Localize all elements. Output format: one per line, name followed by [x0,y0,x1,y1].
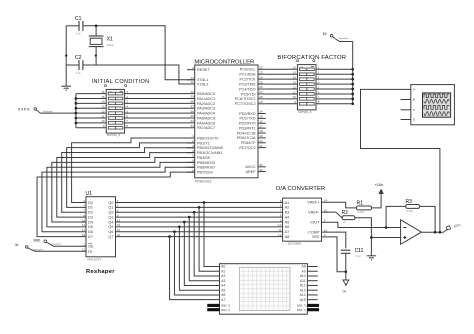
ground [61,85,71,87]
svg-text:PD5/OC1A: PD5/OC1A [237,136,256,140]
junction dot left of C2 [65,54,67,56]
svg-text:A4: A4 [285,215,290,219]
svg-text:15: 15 [292,71,296,75]
svg-text:PC6/TOSC1: PC6/TOSC1 [235,97,256,101]
svg-text:35: 35 [190,114,194,118]
svg-text:A6: A6 [221,293,225,297]
svg-text:28: 28 [259,95,263,99]
svg-text:12: 12 [190,80,194,84]
svg-text:16: 16 [117,228,121,232]
svg-text:INITIAL CONDITION: INITIAL CONDITION [92,79,150,85]
svg-text:A8: A8 [302,265,306,269]
svg-text:PB1/T1: PB1/T1 [197,141,210,145]
svg-text:PD7/OC2: PD7/OC2 [239,146,255,150]
dip switch DIPSW2 (DIPSW_8) BIFORCATION FACTOR [297,65,316,114]
junction [351,102,354,105]
junction [351,98,354,101]
svg-text:D4: D4 [88,220,93,224]
svg-text:PB6/MISO: PB6/MISO [197,166,215,170]
wire left rail C1-C2-ground [65,26,67,86]
svg-text:1uF: 1uF [76,71,81,75]
crystal X1 [95,26,97,36]
wire bus of INITIAL CONDITION dip [75,94,77,128]
svg-text:11: 11 [293,90,296,94]
svg-text:A1: A1 [221,269,225,273]
svg-text:A0: A0 [221,265,225,269]
svg-text:15: 15 [117,223,121,227]
svg-text:13: 13 [82,218,86,222]
wire C1 to XTAL1 [83,26,195,80]
svg-text:D7: D7 [88,235,93,239]
latch U1 74ALS373 [82,191,116,261]
svg-text:Q1: Q1 [108,206,113,210]
junction [75,102,78,105]
svg-text:37: 37 [190,104,194,108]
wire output to oscilloscope A [361,89,440,232]
svg-text:A2: A2 [221,274,225,278]
svg-text:0v: 0v [343,289,347,293]
wire R3 to output node [420,206,436,232]
wire 5V to bus [336,39,353,41]
svg-text:14: 14 [259,110,263,114]
svg-text:COMP: COMP [308,230,320,234]
svg-text:R3: R3 [406,199,413,205]
svg-text:PA7/ADC7: PA7/ADC7 [197,126,215,130]
svg-text:12: 12 [292,85,296,89]
svg-text:10: 10 [278,223,282,227]
ground [367,255,377,257]
svg-text:39: 39 [190,95,194,99]
svg-text:PB0/XCK/T0: PB0/XCK/T0 [197,136,219,140]
svg-text:24: 24 [259,75,263,79]
svg-text:PD2/INT0: PD2/INT0 [239,122,256,126]
svg-text:B3[0..7]: B3[0..7] [297,309,306,312]
svg-text:PD0/RXD: PD0/RXD [239,112,256,116]
bus stub B3 [307,308,318,311]
svg-text:11: 11 [101,114,104,118]
svg-text:A: A [413,88,415,92]
wire C2 to XTAL2 [83,65,195,84]
svg-text:+10v: +10v [375,183,383,187]
junction [75,122,78,125]
svg-text:A9: A9 [302,269,306,273]
junction [75,112,78,115]
svg-text:16: 16 [292,66,296,70]
svg-text:A3: A3 [221,279,225,283]
svg-text:RESET: RESET [197,68,210,72]
svg-text:R2: R2 [342,210,349,216]
wire vertical bus 5V feed [352,42,354,104]
svg-text:11: 11 [278,228,281,232]
svg-text:ATMEGA16: ATMEGA16 [195,179,212,183]
wire R1 to +10V [372,194,382,208]
svg-text:16: 16 [259,119,263,123]
svg-text:X1: X1 [107,37,113,43]
svg-text:A8: A8 [285,235,290,239]
svg-text:16: 16 [101,90,105,94]
svg-text:PC2/TCK: PC2/TCK [240,77,257,81]
svg-text:D3: D3 [88,215,93,219]
svg-text:19: 19 [117,233,121,237]
junction [351,88,354,91]
svg-text:1MHz: 1MHz [107,43,115,47]
terminal (OP) [444,229,448,232]
svg-text:B: B [413,98,415,102]
dip switch DIPSW1 (DIPSW_8) INITIAL CONDITION [106,89,124,137]
svg-text:PD4/OC1B: PD4/OC1B [237,131,256,135]
capacitor C11 [341,249,351,251]
junction output/scope [439,231,442,234]
capacitor C2 [66,64,79,66]
svg-text:C1: C1 [75,16,82,22]
svg-text:Q3: Q3 [108,215,113,219]
svg-text:D1: D1 [88,206,93,210]
wire IOUT to op-amp minus input [322,222,401,227]
svg-text:B2[0..7]: B2[0..7] [297,304,306,307]
svg-text:26: 26 [259,85,263,89]
wire VREF+ to R1 [322,202,357,208]
wire 3V to LE [31,249,86,251]
svg-text:PB4/SS: PB4/SS [197,156,211,160]
svg-text:D0: D0 [88,201,93,205]
svg-text:XTAL2: XTAL2 [197,82,208,86]
dac DAC0808 [283,198,328,246]
svg-text:20: 20 [259,139,263,143]
svg-text:D6: D6 [88,230,93,234]
svg-text:PC4/TDO: PC4/TDO [239,87,256,91]
op-amp U2 [401,220,422,245]
bus stub B1 [208,308,220,311]
svg-text:5.00k: 5.00k [406,209,413,213]
svg-text:C2: C2 [75,55,82,61]
svg-text:A7: A7 [285,230,290,234]
svg-text:19: 19 [259,134,263,138]
svg-text:BIFORCATION FACTOR: BIFORCATION FACTOR [277,55,346,61]
svg-text:PC7/TOSC2: PC7/TOSC2 [235,102,256,106]
svg-text:PB5/MOSI: PB5/MOSI [197,161,215,165]
svg-text:B0[0..7]: B0[0..7] [221,304,230,307]
svg-text:LE: LE [88,250,93,254]
svg-text:A13: A13 [300,288,306,292]
junction [75,97,78,100]
wire op-amp output [422,231,444,233]
svg-text:14: 14 [292,75,296,79]
svg-text:36: 36 [190,109,194,113]
wires PB0..PB7 to latch D0..D7 [37,138,195,237]
junction [351,83,354,86]
svg-text:5VPS: 5VPS [18,107,30,111]
power +10V arrow [379,189,384,194]
resistor R3 [406,205,420,209]
junction [75,107,78,110]
ground 0V arrow [345,272,347,280]
wire feedback node to R3 [386,206,406,227]
wires to logic analyser A0..A7 with junctions [168,201,219,300]
svg-text:Q6: Q6 [108,230,113,234]
wire C11 to 0V node [345,253,347,271]
svg-text:40: 40 [190,90,194,94]
svg-text:D5: D5 [88,225,93,229]
svg-text:Q5: Q5 [108,225,113,229]
svg-text:18: 18 [82,233,86,237]
svg-text:R1: R1 [357,200,364,206]
svg-text:C11: C11 [355,248,364,254]
svg-text:PC1/SDA: PC1/SDA [239,73,256,77]
svg-text:74ALS373: 74ALS373 [87,257,101,261]
svg-text:25: 25 [259,80,263,84]
svg-text:IOUT: IOUT [310,221,320,225]
wire 5VPS to bus [40,112,76,114]
svg-text:Q4: Q4 [108,220,113,224]
svg-text:PA0/ADC0: PA0/ADC0 [197,92,215,96]
svg-text:34: 34 [190,119,194,123]
wire VREF- to R2 [322,212,343,218]
resistor R1 [357,206,372,210]
wires Q0..Q7 to DAC A1..A8 [116,199,283,237]
bus stub B2 [307,304,318,307]
svg-text:PA3/ADC3: PA3/ADC3 [197,107,215,111]
svg-text:D2: D2 [88,211,93,215]
svg-text:VREF+: VREF+ [307,201,320,205]
svg-text:27: 27 [259,90,263,94]
svg-text:DIPSW_8: DIPSW_8 [298,110,312,114]
svg-text:10: 10 [101,119,105,123]
svg-text:A2: A2 [285,206,290,210]
svg-text:12: 12 [117,218,121,222]
svg-text:38: 38 [190,100,194,104]
svg-text:Reshaper: Reshaper [86,269,115,275]
svg-text:A15: A15 [300,298,306,302]
svg-text:PD3/INT1: PD3/INT1 [239,126,256,130]
svg-text:PD6/ICP: PD6/ICP [241,141,256,145]
svg-text:B1[0..7]: B1[0..7] [221,309,230,312]
svg-text:A6: A6 [285,225,290,229]
junction [351,93,354,96]
capacitor C1 [66,25,79,27]
svg-text:PB3/OC0/AIN1: PB3/OC0/AIN1 [197,151,223,155]
svg-text:PA1/ADC1: PA1/ADC1 [197,97,215,101]
svg-text:14: 14 [82,223,86,227]
svg-text:30: 30 [259,163,263,167]
svg-text:17: 17 [82,228,86,232]
svg-text:0.1u: 0.1u [355,254,361,258]
svg-text:PB7/SCK: PB7/SCK [197,171,214,175]
svg-text:VREF-: VREF- [308,210,320,214]
svg-text:OE: OE [88,245,94,249]
svg-text:A5: A5 [221,288,225,292]
junction 0V node [344,270,347,273]
svg-text:3v: 3v [15,243,19,247]
svg-text:33: 33 [190,124,194,128]
svg-text:PC3/TMS: PC3/TMS [239,82,256,86]
svg-text:PC0/SCL: PC0/SCL [240,68,256,72]
svg-text:GND: GND [33,239,41,243]
wires bus to DIPSW1 left pins 16..9 [76,90,106,128]
svg-text:23: 23 [259,70,263,74]
svg-text:DIPSW_8: DIPSW_8 [107,133,121,137]
svg-text:VEE: VEE [312,235,320,239]
svg-text:A14: A14 [300,293,306,297]
wires DIPSW2 right pins 1..8 to bus [316,66,353,105]
svg-text:PA6/ADC6: PA6/ADC6 [197,121,215,125]
junction crystal top [95,24,98,27]
junction [351,78,354,81]
svg-text:15: 15 [259,115,263,119]
svg-text:A3: A3 [285,211,290,215]
svg-text:A1: A1 [285,201,290,205]
svg-text:13: 13 [292,80,296,84]
svg-text:A7: A7 [221,298,225,302]
wire node to op-amp plus input [371,237,400,239]
logic analyser [208,264,319,315]
svg-text:A10: A10 [300,274,306,278]
svg-text:1.00k: 1.00k [357,210,364,214]
junction plus-input node [370,236,373,239]
wire COMP to C11 [322,232,346,248]
svg-text:DAC0808: DAC0808 [288,242,301,246]
svg-text:Q0: Q0 [108,201,113,205]
wires PC0..PC7 to DIPSW2 left pins 16..9 [266,66,298,105]
junction [351,73,354,76]
wire VEE to 0V node [322,237,346,272]
resistor R2 [342,216,355,220]
oscilloscope [401,85,455,125]
svg-text:PC5/TDI: PC5/TDI [241,92,256,96]
svg-text:Q7: Q7 [108,235,113,239]
svg-text:29: 29 [259,100,263,104]
svg-text:A4: A4 [221,284,225,288]
svg-text:PA2/ADC2: PA2/ADC2 [197,102,215,106]
svg-text:18: 18 [259,129,263,133]
wire GND to OE [49,244,86,247]
junction [351,68,354,71]
svg-text:14: 14 [101,100,105,104]
junction dot right of C2 [95,54,97,56]
svg-text:Q2: Q2 [108,211,113,215]
junction [75,117,78,120]
svg-text:32: 32 [259,168,263,172]
svg-text:PB2/INT2/AIN0: PB2/INT2/AIN0 [197,146,223,150]
junction minus-input node [385,226,388,229]
svg-text:21: 21 [259,144,263,148]
svg-text:A11: A11 [300,279,306,283]
junction output/R3 [434,231,437,234]
microcontroller ATMEGA16 [187,60,266,184]
svg-text:AREF: AREF [245,170,256,174]
svg-text:AVCC: AVCC [245,165,256,169]
wire R2 to ground node [355,218,372,256]
svg-text:13: 13 [101,105,105,109]
svg-text:A12: A12 [300,284,306,288]
svg-text:D/A CONVERTER: D/A CONVERTER [276,186,325,192]
svg-text:A5: A5 [285,220,290,224]
bus stub B0 [208,304,220,307]
svg-text:1uF: 1uF [76,32,81,36]
svg-text:PD1/TXD: PD1/TXD [240,117,256,121]
svg-text:PA5/ADC5: PA5/ADC5 [197,116,215,120]
svg-text:22: 22 [259,66,263,70]
svg-text:12: 12 [101,109,105,113]
svg-text:10: 10 [292,95,296,99]
svg-text:17: 17 [259,124,263,128]
wires DIPSW1 right pins 1..8 to PA0..PA7 [125,90,187,128]
svg-text:PA4/ADC4: PA4/ADC4 [197,112,215,116]
svg-text:15: 15 [101,95,105,99]
svg-text:12: 12 [278,233,282,237]
